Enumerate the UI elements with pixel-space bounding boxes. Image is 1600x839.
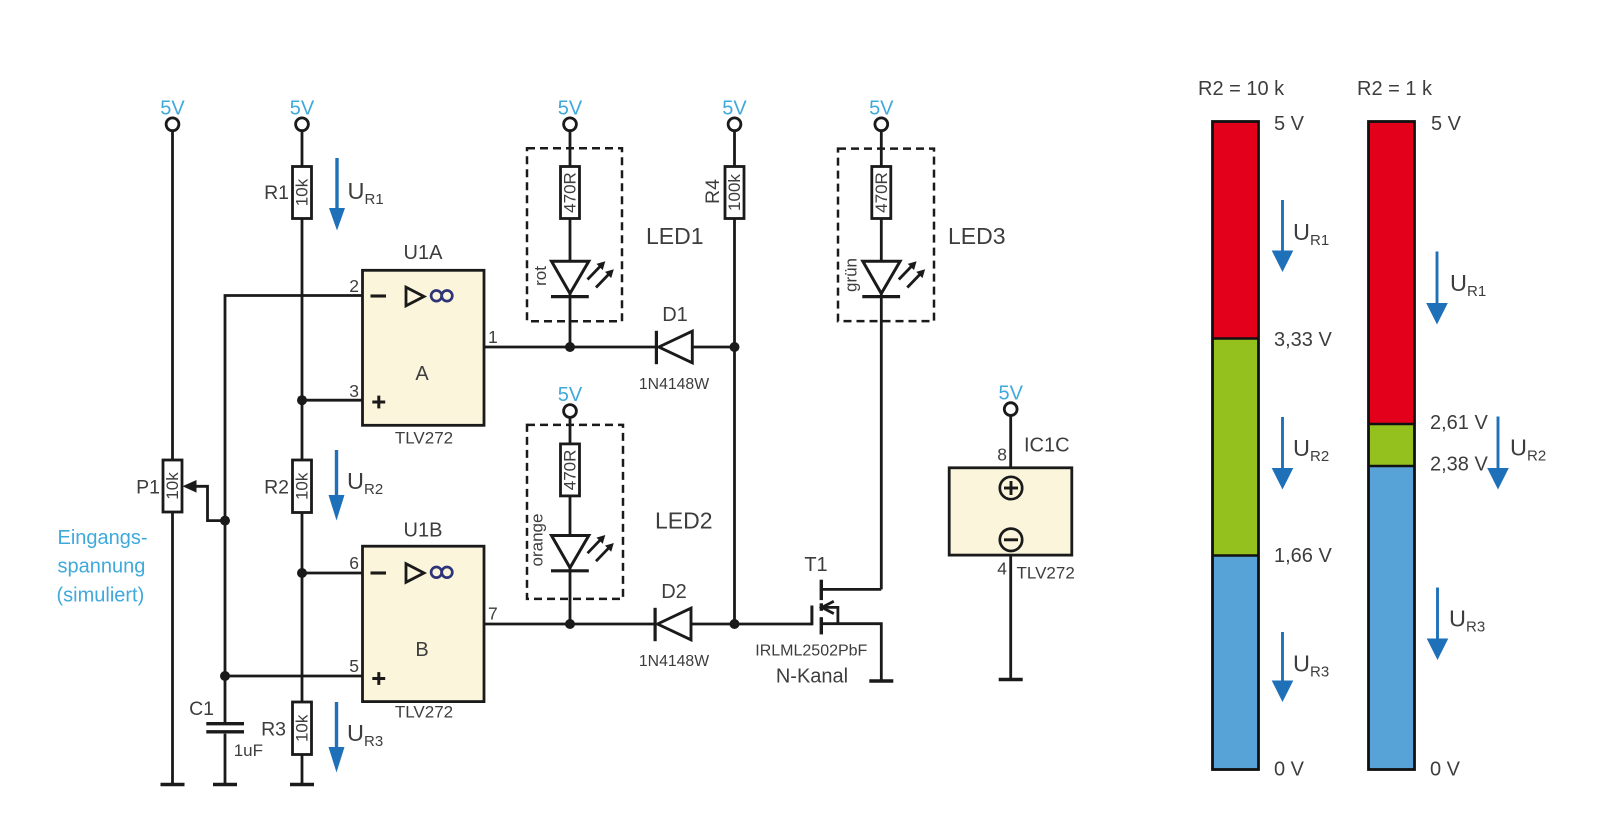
5V supply terminal (P1 branch) xyxy=(160,98,185,131)
svg-text:TLV272: TLV272 xyxy=(395,703,453,722)
svg-text:1N4148W: 1N4148W xyxy=(639,653,709,670)
svg-text:Eingangs-: Eingangs- xyxy=(58,527,148,549)
wire T1 drain to LED3 xyxy=(821,588,881,591)
svg-text:spannung: spannung xyxy=(58,556,146,578)
node junction LED1 output xyxy=(565,342,575,352)
bar chart 1 borders xyxy=(1213,122,1259,770)
svg-text:10k: 10k xyxy=(293,714,312,742)
LED2 dashed module box xyxy=(527,425,623,599)
wire 5V to IC1C pin8 xyxy=(1009,416,1012,468)
node junction LED2 output xyxy=(565,619,575,629)
LED3 emission arrows xyxy=(899,261,925,287)
U1A minus input symbol xyxy=(371,294,387,297)
svg-text:(simuliert): (simuliert) xyxy=(57,584,145,606)
svg-text:5: 5 xyxy=(349,656,359,676)
svg-text:LED1: LED1 xyxy=(646,223,704,249)
LED1 dashed module box xyxy=(527,148,622,321)
5V supply terminal (IC1C) xyxy=(998,383,1023,416)
node junction pin3 xyxy=(297,395,307,405)
svg-text:R3: R3 xyxy=(261,719,286,741)
U1A triangle symbol xyxy=(406,287,424,306)
IC1C plus supply symbol xyxy=(1000,477,1022,499)
bar chart 1 arrow UR2 xyxy=(1272,417,1294,490)
voltage arrow UR3 xyxy=(329,702,345,773)
svg-text:B: B xyxy=(415,639,428,661)
bar chart 2 borders xyxy=(1369,122,1415,770)
wire resistor to LED2 xyxy=(569,496,572,536)
wire D2 node to T1 gate xyxy=(735,623,812,626)
wire pin5 xyxy=(225,675,363,678)
U1B infinity symbol xyxy=(431,567,452,578)
svg-text:5 V: 5 V xyxy=(1431,113,1462,135)
bar chart 2 arrow UR1 xyxy=(1426,252,1448,325)
wire pin3 xyxy=(302,399,363,402)
LED2 emission arrows xyxy=(588,535,614,561)
wire U1B output pin7 xyxy=(484,623,570,626)
IC1C minus supply symbol xyxy=(1000,529,1022,551)
bar chart 1 arrow UR3 xyxy=(1272,632,1294,702)
svg-text:R2 = 1 k: R2 = 1 k xyxy=(1357,78,1433,100)
U1A infinity symbol xyxy=(431,291,452,302)
wire 5V to LED3 resistor xyxy=(880,132,883,167)
resistor R3 xyxy=(293,702,312,755)
LED3 series resistor body xyxy=(872,167,891,219)
wire R1 to R2 xyxy=(301,219,304,461)
bar chart 2 red segment UR1 xyxy=(1369,122,1415,425)
svg-text:TLV272: TLV272 xyxy=(1017,563,1075,582)
potentiometer P1 body xyxy=(163,460,182,512)
svg-text:1,66 V: 1,66 V xyxy=(1274,545,1332,567)
svg-text:N-Kanal: N-Kanal xyxy=(776,666,848,688)
LED1 diode symbol xyxy=(551,261,589,347)
5V supply terminal (LED2 branch) xyxy=(558,384,583,418)
svg-text:R4: R4 xyxy=(702,179,724,204)
svg-text:470R: 470R xyxy=(561,172,580,213)
ground (C1) xyxy=(213,783,237,787)
LED2 series resistor body xyxy=(561,444,580,496)
U1B plus input symbol xyxy=(372,672,385,685)
svg-text:4: 4 xyxy=(997,559,1007,579)
wire input node vertical (wiper net, pin2 to C1) xyxy=(225,296,363,723)
svg-text:3: 3 xyxy=(349,381,359,401)
wire C1 bottom to ground xyxy=(224,734,227,784)
wire R3 to ground xyxy=(301,755,304,784)
bar chart 2 green segment UR2 xyxy=(1369,424,1415,466)
wire IC1C pin4 to ground xyxy=(1009,555,1012,678)
svg-text:D1: D1 xyxy=(662,304,688,326)
U1B minus input symbol xyxy=(371,571,387,574)
svg-text:5V: 5V xyxy=(290,98,315,120)
bar chart 1 blue segment UR3 xyxy=(1213,556,1259,770)
svg-text:R1: R1 xyxy=(264,182,289,204)
svg-text:1uF: 1uF xyxy=(234,741,263,760)
node junction wiper xyxy=(220,516,230,526)
svg-text:3,33 V: 3,33 V xyxy=(1274,329,1332,351)
svg-text:10k: 10k xyxy=(293,472,312,500)
transistor T1 MOSFET symbol xyxy=(812,580,838,635)
wire P1 bottom to ground xyxy=(171,511,174,784)
bar chart 1 green segment UR2 xyxy=(1213,339,1259,556)
svg-text:P1: P1 xyxy=(136,477,160,499)
wire resistor to LED1 xyxy=(569,219,572,263)
voltage arrow UR2 xyxy=(329,450,345,521)
svg-text:0 V: 0 V xyxy=(1430,759,1461,781)
svg-text:LED2: LED2 xyxy=(655,508,713,534)
5V supply terminal (LED1 branch) xyxy=(558,98,583,131)
node junction pin5 xyxy=(220,671,230,681)
node junction D1/R4 xyxy=(730,342,740,352)
svg-text:2,61 V: 2,61 V xyxy=(1430,412,1488,434)
svg-text:1: 1 xyxy=(488,327,498,347)
svg-text:IC1C: IC1C xyxy=(1024,435,1070,457)
wire LED1 node to D1 xyxy=(570,346,656,349)
5V supply terminal (R4 branch) xyxy=(722,98,747,131)
svg-text:TLV272: TLV272 xyxy=(395,429,453,448)
resistor R2 xyxy=(293,460,312,513)
U1B triangle symbol xyxy=(406,564,424,583)
capacitor C1 xyxy=(206,724,244,732)
svg-text:7: 7 xyxy=(488,604,498,624)
svg-text:IRLML2502PbF: IRLML2502PbF xyxy=(755,643,867,660)
diode D1 xyxy=(656,331,692,364)
P1 wiper arrow xyxy=(183,480,226,521)
wire LED2 node to D2 xyxy=(570,623,655,626)
wire 5V terminal to P1 top xyxy=(171,132,174,461)
label Eingangsspannung (simuliert) xyxy=(57,527,148,606)
svg-text:5V: 5V xyxy=(869,98,894,120)
wire R2 to R3 xyxy=(301,513,304,703)
LED3 dashed module box xyxy=(838,149,934,322)
bar chart 1 red segment UR1 xyxy=(1213,122,1259,339)
svg-text:grün: grün xyxy=(842,258,861,292)
svg-text:5V: 5V xyxy=(558,384,583,406)
node junction D2/R4 xyxy=(730,619,740,629)
svg-text:T1: T1 xyxy=(804,554,827,576)
svg-text:5V: 5V xyxy=(160,98,185,120)
resistor R1 xyxy=(293,167,312,219)
LED3 diode symbol xyxy=(862,261,900,589)
wire T1 source to ground xyxy=(821,624,881,680)
svg-text:R2 = 10 k: R2 = 10 k xyxy=(1198,78,1285,100)
svg-text:LED3: LED3 xyxy=(948,223,1006,249)
LED2 diode symbol xyxy=(551,536,589,625)
svg-text:A: A xyxy=(415,363,429,385)
svg-text:8: 8 xyxy=(997,445,1007,465)
svg-text:U1B: U1B xyxy=(404,520,443,542)
wire 5V to R4 xyxy=(733,132,736,167)
ground (R3) xyxy=(290,783,314,787)
svg-text:470R: 470R xyxy=(561,450,580,491)
wire 5V to LED1 resistor xyxy=(569,132,572,167)
node junction pin6 xyxy=(297,568,307,578)
svg-text:470R: 470R xyxy=(872,172,891,213)
bar chart 1 arrow UR1 xyxy=(1272,200,1294,272)
wire U1A output pin1 xyxy=(484,346,570,349)
bar chart 2 arrow UR2 xyxy=(1487,417,1509,490)
bar chart 2 blue segment UR3 xyxy=(1369,466,1415,770)
LED1 series resistor body xyxy=(561,167,580,219)
svg-text:1N4148W: 1N4148W xyxy=(639,376,709,393)
svg-text:10k: 10k xyxy=(293,178,312,206)
wire D1 to R4 node xyxy=(692,346,734,349)
LED1 emission arrows xyxy=(588,261,614,287)
svg-text:5V: 5V xyxy=(558,98,583,120)
svg-text:R2: R2 xyxy=(264,477,289,499)
op-amp U1A body xyxy=(363,270,485,425)
svg-text:D2: D2 xyxy=(661,581,687,603)
svg-text:10k: 10k xyxy=(163,472,182,500)
svg-text:C1: C1 xyxy=(189,698,214,720)
svg-text:5V: 5V xyxy=(722,98,747,120)
wire 5V to R1 xyxy=(301,132,304,167)
IC1C power block body xyxy=(949,468,1072,555)
svg-text:rot: rot xyxy=(531,266,550,286)
op-amp U1B body xyxy=(363,546,485,701)
svg-text:5V: 5V xyxy=(998,383,1023,405)
svg-text:2,38 V: 2,38 V xyxy=(1430,454,1488,476)
svg-text:U1A: U1A xyxy=(404,242,444,264)
U1A plus input symbol xyxy=(372,396,385,409)
wire resistor to LED3 xyxy=(880,219,883,263)
ground (P1) xyxy=(161,783,185,787)
svg-text:5 V: 5 V xyxy=(1274,113,1305,135)
svg-text:orange: orange xyxy=(528,514,547,567)
svg-text:2: 2 xyxy=(349,276,359,296)
svg-text:6: 6 xyxy=(349,553,359,573)
wire D2 to R4 node xyxy=(691,623,735,626)
wire pin6 xyxy=(302,572,363,575)
svg-text:0 V: 0 V xyxy=(1274,759,1305,781)
bar chart 2 arrow UR3 xyxy=(1427,588,1449,661)
svg-text:100k: 100k xyxy=(725,174,744,211)
resistor R4 xyxy=(725,167,744,219)
5V supply terminal (divider branch) xyxy=(290,98,315,131)
ground (IC1C) xyxy=(999,678,1023,682)
ground (T1 source) xyxy=(869,679,893,683)
voltage arrow UR1 xyxy=(329,158,345,231)
wire 5V to LED2 resistor xyxy=(569,418,572,444)
diode D2 xyxy=(655,608,691,641)
wire R4 down to D2 node xyxy=(733,219,736,625)
5V supply terminal (LED3 branch) xyxy=(869,98,894,131)
